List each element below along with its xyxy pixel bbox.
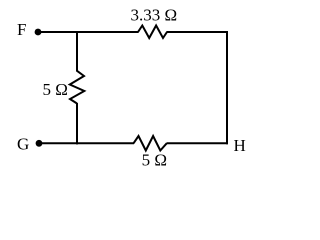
svg-text:F: F	[17, 20, 26, 39]
node F	[17, 20, 41, 39]
wire top junction down to R2	[76, 32, 78, 72]
svg-text:5 Ω: 5 Ω	[142, 151, 167, 170]
svg-text:H: H	[234, 136, 246, 155]
resistor R1 (3.33 Ω, top)	[138, 26, 167, 39]
wire right vertical (to node H)	[226, 31, 228, 144]
wire F to R1 (top left horizontal)	[38, 31, 139, 33]
node H	[234, 136, 246, 155]
node G	[17, 135, 42, 154]
junction top (F wire to R2 branch)	[76, 31, 78, 33]
resistor R2 (5 Ω, left vertical)	[70, 71, 85, 104]
wire R3 to G	[39, 142, 134, 144]
junction bottom (G wire to R2 branch)	[76, 142, 78, 144]
svg-text:3.33 Ω: 3.33 Ω	[131, 5, 178, 24]
wire bottom-right corner to R3	[167, 142, 229, 144]
wire R1 to top-right corner	[167, 31, 229, 33]
wire R2 down to bottom junction	[76, 103, 78, 144]
resistor R3 (5 Ω, bottom)	[134, 136, 167, 151]
svg-text:5 Ω: 5 Ω	[43, 80, 68, 99]
svg-text:G: G	[17, 135, 29, 154]
